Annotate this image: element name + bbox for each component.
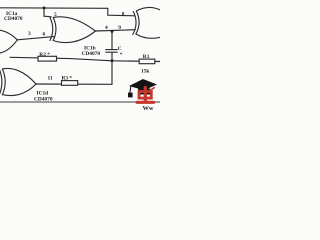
- logo watermark graduation cap board: [128, 79, 157, 97]
- svg-text:9: 9: [118, 25, 121, 31]
- wire branch down to pin 5 of IC1b: [44, 8, 51, 17]
- svg-text:6: 6: [43, 32, 46, 38]
- XOR gate IC1d (clipped at left edge): [0, 68, 36, 95]
- wire feedback down and left to IC1d output: [36, 61, 112, 85]
- svg-text:5: 5: [54, 12, 57, 18]
- node junction dot on bottom net: [111, 59, 114, 62]
- logo watermark red bug glyph: [137, 88, 154, 103]
- wire pin 3 to pin 6: [17, 37, 54, 40]
- XOR gate IC1a (clipped at left edge): [0, 29, 17, 54]
- node junction dot at IC1b output: [111, 30, 114, 33]
- resistor R1: [139, 59, 155, 64]
- svg-text:C: C: [118, 46, 122, 52]
- XOR gate IC1c (clipped at right edge): [133, 7, 162, 38]
- svg-text:R3 *: R3 *: [62, 76, 73, 82]
- resistor R2: [38, 56, 57, 61]
- wire pin 4 to pin 9: [96, 30, 136, 31]
- svg-text:R2 *: R2 *: [39, 52, 50, 58]
- svg-text:8: 8: [122, 12, 125, 18]
- svg-text:*: *: [120, 52, 123, 58]
- svg-text:4: 4: [105, 25, 108, 31]
- svg-text:CD4070: CD4070: [82, 51, 101, 57]
- wire capacitor to bottom net: [111, 52, 113, 61]
- XOR gate IC1b: [50, 17, 96, 43]
- wire bottom border line: [0, 101, 160, 103]
- capacitor C plates: [106, 50, 117, 53]
- svg-text:CD4070: CD4070: [4, 16, 23, 22]
- svg-text:15k: 15k: [141, 69, 149, 75]
- svg-text:Ww: Ww: [143, 105, 154, 110]
- wire long horizontal net through R2 and R1: [10, 57, 160, 61]
- wire step down to pin 8 of IC1c: [108, 8, 135, 16]
- svg-text:R1: R1: [143, 54, 150, 60]
- node junction dot on top net: [43, 7, 46, 10]
- resistor R3: [62, 81, 78, 86]
- svg-text:3: 3: [28, 31, 31, 37]
- svg-text:11: 11: [48, 76, 53, 82]
- wire top net across top: [0, 7, 108, 10]
- wire down to capacitor: [111, 31, 113, 49]
